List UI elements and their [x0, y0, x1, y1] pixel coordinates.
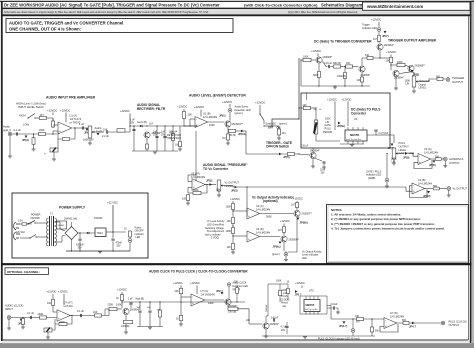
svg-text:+: + — [413, 190, 415, 194]
svg-text:100K: 100K — [193, 189, 199, 192]
svg-text:1N4002 (x4): 1N4002 (x4) — [64, 218, 77, 221]
svg-text:-: - — [196, 117, 197, 121]
svg-text:1K?: 1K? — [149, 122, 154, 125]
svg-text:100K(B): 100K(B) — [121, 326, 130, 328]
svg-text:1K: 1K — [124, 229, 127, 231]
svg-text:12VAC: 12VAC — [58, 224, 65, 227]
svg-text:10K: 10K — [246, 320, 251, 322]
svg-text:(ms) Trg Out Rst: (ms) Trg Out Rst — [346, 138, 361, 141]
svg-text:10K: 10K — [386, 60, 391, 63]
svg-text:-: - — [193, 179, 194, 183]
svg-text:High (B): High (B) — [136, 299, 145, 301]
svg-text:U? (A?): U? (A?) — [64, 300, 73, 304]
svg-text:1K: 1K — [176, 319, 179, 321]
svg-text:(AMB): (AMB) — [368, 177, 375, 180]
svg-text:Vc OUTPUT: Vc OUTPUT — [453, 187, 468, 191]
svg-text:HIGH (Line) / LOW (Inst.): HIGH (Line) / LOW (Inst.) — [16, 102, 46, 106]
svg-text:+12VDC: +12VDC — [177, 105, 187, 109]
svg-text:600K: 600K — [313, 74, 319, 77]
svg-text:10K: 10K — [227, 246, 232, 249]
svg-text:OUTPUT: OUTPUT — [449, 161, 460, 165]
svg-text:2N3906*: 2N3906* — [323, 56, 333, 59]
svg-text:Schematics are drawn based on: Schematics are drawn based on original d… — [4, 11, 209, 14]
svg-text:100K LIN: 100K LIN — [83, 139, 94, 142]
svg-text:TRIGGER: TRIGGER — [452, 76, 464, 80]
svg-text:51K: 51K — [365, 54, 370, 57]
svg-text:U? (C): U? (C) — [201, 289, 209, 293]
svg-text:Indicator LED: Indicator LED — [362, 27, 377, 30]
svg-text:+12VDC: +12VDC — [58, 290, 68, 294]
svg-text:-: - — [385, 318, 386, 322]
svg-text:(CLOCK): (CLOCK) — [280, 299, 290, 301]
svg-text:LED: LED — [136, 236, 141, 239]
svg-text:1 uF: 1 uF — [79, 122, 85, 126]
svg-text:LIN: LIN — [283, 293, 287, 295]
svg-text:(p)(c) 2013, Mike Zee, MZEnter: (p)(c) 2013, Mike Zee, MZEntertainment.c… — [288, 11, 358, 14]
svg-text:1K?: 1K? — [356, 321, 361, 323]
svg-text:U?5: U?5 — [309, 289, 314, 292]
svg-text:+: + — [58, 317, 60, 321]
svg-text:AUDIO (CLICK): AUDIO (CLICK) — [5, 303, 23, 307]
svg-text:NOTES:: NOTES: — [331, 208, 342, 212]
svg-text:Schematics Diagram.: Schematics Diagram. — [321, 2, 363, 7]
svg-text:+: + — [59, 130, 61, 134]
svg-text:35V: 35V — [78, 247, 83, 249]
svg-text:7812: 7812 — [97, 231, 104, 235]
svg-text:106I (B): 106I (B) — [228, 311, 236, 313]
svg-text:www.MZEntertainment.com: www.MZEntertainment.com — [366, 4, 423, 9]
svg-text:AUDIO LEVEL (EVENT) DETECTOR: AUDIO LEVEL (EVENT) DETECTOR — [189, 94, 246, 98]
svg-text:Audio: Audio — [3, 125, 10, 129]
svg-text:NE555: NE555 — [306, 303, 315, 307]
svg-text:0.01uF: 0.01uF — [301, 146, 309, 148]
svg-text:PULS (CLOCK): PULS (CLOCK) — [449, 319, 467, 323]
svg-text:U1: U1 — [354, 117, 358, 121]
svg-text:+12VDC: +12VDC — [222, 100, 232, 104]
svg-text:10K: 10K — [216, 189, 221, 192]
svg-text:U2 (D): U2 (D) — [256, 227, 264, 231]
svg-text:AUDIO CLICK TO PULS CLICK ( CL: AUDIO CLICK TO PULS CLICK ( CLICK-TO-CLO… — [149, 269, 248, 273]
svg-text:100K: 100K — [208, 302, 214, 305]
svg-text:2.2 uF: 2.2 uF — [102, 135, 110, 138]
svg-text:JP(5b): JP(5b) — [337, 124, 345, 128]
svg-text:25V: 25V — [153, 133, 158, 136]
svg-text:100K: 100K — [303, 56, 309, 59]
svg-text:0.01 uF: 0.01 uF — [324, 62, 333, 65]
svg-text:2. (*) 2N3904 or any general p: 2. (*) 2N3904 or any general purpose low… — [331, 217, 421, 221]
svg-text:680 (B): 680 (B) — [333, 62, 341, 65]
svg-text:+12VDC: +12VDC — [194, 105, 204, 109]
svg-text:1/4 TL074: 1/4 TL074 — [70, 117, 82, 121]
svg-text:JP(6c): JP(6c) — [273, 244, 281, 248]
svg-text:U1 (B): U1 (B) — [203, 111, 211, 115]
svg-text:1/4 LM324N: 1/4 LM324N — [201, 292, 215, 296]
svg-text:ONE CHANNEL OUT OF 4 is Shown:: ONE CHANNEL OUT OF 4 is Shown: — [9, 27, 81, 32]
svg-text:1/4 LM324N: 1/4 LM324N — [418, 182, 432, 186]
svg-text:+12VDC: +12VDC — [190, 281, 200, 285]
svg-text:PULS: PULS — [282, 296, 288, 298]
svg-text:ON/OFF: ON/OFF — [31, 217, 41, 220]
svg-text:PERIOD: PERIOD — [323, 131, 332, 134]
svg-text:LOW: LOW — [23, 123, 29, 127]
svg-text:10K: 10K — [103, 129, 108, 132]
svg-text:10K: 10K — [47, 302, 52, 305]
svg-text:(with Click-To-Clock Converter: (with Click-To-Clock Converter Option) — [244, 2, 318, 7]
svg-text:JP(10): JP(10) — [423, 195, 431, 198]
svg-text:JP(4.?): JP(4.?) — [339, 325, 348, 328]
svg-text:JP(B): JP(B) — [429, 164, 436, 167]
svg-text:U2 (C): U2 (C) — [256, 204, 264, 208]
svg-text:-: - — [248, 231, 249, 235]
svg-text:JP(6b): JP(6b) — [300, 220, 308, 224]
svg-text:+12VDC: +12VDC — [47, 109, 57, 113]
svg-text:DC (Gate) To TRIGGER CONVERTER: DC (Gate) To TRIGGER CONVERTER — [314, 40, 372, 44]
svg-text:U? (D): U? (D) — [390, 311, 398, 315]
svg-text:(optional): (optional) — [263, 199, 278, 203]
svg-text:-: - — [192, 294, 193, 298]
svg-text:1K?: 1K? — [373, 38, 378, 41]
svg-text:NE555: NE555 — [350, 133, 360, 137]
svg-text:LIN: LIN — [406, 83, 410, 86]
svg-text:1K?: 1K? — [40, 114, 45, 117]
svg-text:1/4 LM324N: 1/4 LM324N — [203, 115, 217, 119]
svg-text:Germ.(B): Germ.(B) — [137, 121, 147, 124]
svg-text:10K: 10K — [346, 62, 351, 65]
svg-text:22uF: 22uF — [320, 170, 326, 172]
svg-text:(green): (green) — [235, 112, 243, 115]
svg-text:OFF/ON Switch: OFF/ON Switch — [266, 145, 289, 149]
svg-text:1000uF: 1000uF — [76, 244, 84, 246]
svg-text:+: + — [196, 123, 198, 127]
svg-text:1uF: 1uF — [137, 307, 141, 309]
svg-text:0.1(?)7uF: 0.1(?)7uF — [379, 133, 390, 135]
svg-text:25V: 25V — [161, 133, 166, 136]
svg-text:470uF: 470uF — [116, 242, 123, 244]
svg-text:OPTIONAL CHANNEL:: OPTIONAL CHANNEL: — [7, 270, 40, 274]
svg-text:2N3906**: 2N3906** — [289, 238, 300, 241]
svg-text:1K: 1K — [287, 281, 290, 283]
svg-text:100K: 100K — [276, 281, 282, 283]
svg-text:JP(9): JP(9) — [403, 155, 409, 159]
svg-text:-: - — [419, 154, 420, 158]
svg-text:uA741C: uA741C — [64, 304, 74, 308]
svg-text:10K: 10K — [357, 79, 362, 82]
svg-text:+: + — [419, 160, 421, 164]
svg-text:Period: Period — [281, 302, 288, 305]
svg-text:220K: 220K — [108, 304, 114, 307]
svg-text:20K: 20K — [188, 114, 193, 117]
svg-text:+12VDC: +12VDC — [60, 109, 70, 113]
svg-text:0.1 uF: 0.1 uF — [14, 128, 22, 132]
svg-text:1/4 LM324N: 1/4 LM324N — [256, 230, 270, 234]
svg-text:1uF: 1uF — [147, 307, 151, 309]
svg-text:-: - — [248, 208, 249, 212]
svg-text:JP(2): JP(2) — [206, 178, 212, 182]
svg-text:U2 (A): U2 (A) — [424, 147, 432, 151]
svg-text:2N3904*: 2N3904* — [310, 150, 320, 153]
svg-text:1K1: 1K1 — [282, 132, 287, 135]
svg-text:1/4 LM324N: 1/4 LM324N — [390, 314, 404, 318]
svg-text:0.1 uF: 0.1 uF — [77, 310, 85, 313]
svg-text:+12VDC: +12VDC — [117, 288, 127, 292]
svg-text:LED: LED — [302, 257, 307, 260]
svg-text:JP(7): JP(7) — [382, 34, 389, 38]
svg-text:+: + — [248, 238, 250, 242]
svg-text:LEVEL: LEVEL — [419, 87, 427, 90]
svg-text:Dr ZEE WORKSHOP AUDIO (AC Sign: Dr ZEE WORKSHOP AUDIO (AC Signal) To GAT… — [4, 2, 220, 7]
svg-text:10K: 10K — [227, 220, 232, 223]
svg-text:U1 (A): U1 (A) — [70, 114, 78, 118]
svg-text:AUDIO INPUT PRE AMPLIFIER: AUDIO INPUT PRE AMPLIFIER — [46, 96, 96, 100]
svg-text:1K: 1K — [116, 297, 119, 300]
svg-text:1K?: 1K? — [278, 229, 283, 232]
svg-text:TRIGGER OUTPUT AMPLIFIER: TRIGGER OUTPUT AMPLIFIER — [388, 39, 437, 43]
svg-text:3900pF: 3900pF — [266, 304, 268, 312]
svg-text:12K: 12K — [303, 104, 308, 107]
svg-text:1N4002: 1N4002 — [94, 217, 103, 220]
svg-text:+12VDC: +12VDC — [280, 219, 290, 223]
svg-text:+12VDC: +12VDC — [230, 197, 240, 201]
svg-text:(green): (green) — [272, 253, 280, 256]
svg-text:10K: 10K — [157, 309, 161, 311]
svg-text:25V: 25V — [117, 245, 122, 247]
svg-text:+: + — [385, 324, 387, 328]
svg-text:16V: 16V — [281, 330, 286, 332]
svg-text:AUDIO TO GATE, TRIGGER and Vc: AUDIO TO GATE, TRIGGER and Vc CONVERTER … — [9, 21, 123, 26]
svg-text:+12VDC: +12VDC — [342, 97, 352, 101]
svg-text:INPUT: INPUT — [5, 307, 13, 311]
svg-text:LEVEL: LEVEL — [225, 184, 234, 188]
svg-text:THRESHOLD: THRESHOLD — [167, 137, 182, 140]
svg-text:1/4 LM324N: 1/4 LM324N — [424, 150, 438, 154]
svg-text:4. ?(-) Jumpers connections po: 4. ?(-) Jumpers connections points betwe… — [331, 226, 445, 230]
svg-text:100K: 100K — [226, 230, 232, 233]
svg-text:JP(3): JP(3) — [231, 188, 238, 192]
svg-text:2N3907**: 2N3907** — [302, 213, 313, 216]
svg-text:+12VDC: +12VDC — [371, 18, 381, 22]
svg-text:+12VDC: +12VDC — [295, 281, 305, 285]
svg-text:-: - — [59, 122, 60, 126]
svg-text:25V: 25V — [130, 121, 135, 124]
svg-text:Vc OUTPUT: Vc OUTPUT — [225, 180, 240, 184]
svg-text:10K: 10K — [234, 281, 239, 283]
svg-text:0.5A: 0.5A — [18, 219, 23, 222]
svg-text:+12VDC: +12VDC — [173, 281, 183, 285]
svg-text:2N3904*: 2N3904* — [384, 44, 394, 47]
svg-text:+12VDC: +12VDC — [120, 109, 130, 113]
svg-text:500K: 500K — [266, 216, 272, 219]
svg-text:1 uF: 1 uF — [128, 299, 133, 301]
svg-text:20K: 20K — [175, 290, 180, 293]
svg-text:100K(B): 100K(B) — [337, 75, 346, 78]
svg-text:POWER SUPPLY: POWER SUPPLY — [59, 206, 86, 210]
svg-text:1/4 LM324N: 1/4 LM324N — [256, 208, 270, 212]
svg-text:JP(1b): JP(1b) — [238, 132, 246, 136]
svg-text:+12 VDC: +12 VDC — [107, 200, 118, 204]
svg-text:HIGH: HIGH — [19, 114, 26, 118]
svg-text:120 VAC: 120 VAC — [16, 231, 25, 234]
svg-text:100K: 100K — [282, 290, 288, 292]
svg-text:100K: 100K — [39, 128, 45, 132]
svg-text:+12VDC: +12VDC — [255, 101, 265, 105]
svg-text:100K: 100K — [209, 124, 215, 127]
svg-text:JP4.?: JP4.? — [409, 325, 416, 329]
svg-text:0.1 uF: 0.1 uF — [27, 312, 35, 315]
svg-text:Gnd Trg Out Rst: Gnd Trg Out Rst — [305, 308, 319, 311]
svg-text:U2 (B): U2 (B) — [418, 178, 426, 182]
svg-text:PULS (CLOCK) Indicator LED (B): PULS (CLOCK) Indicator LED (B) (red) — [318, 338, 360, 341]
svg-text:10K: 10K — [182, 198, 187, 201]
svg-text:INPUT LEVEL Switch: INPUT LEVEL Switch — [18, 105, 44, 109]
svg-text:TO Vc Converter: TO Vc Converter — [203, 167, 229, 171]
svg-text:OUTPUT: OUTPUT — [452, 80, 463, 84]
svg-text:16V: 16V — [321, 173, 326, 175]
svg-text:JP(1): JP(1) — [219, 114, 226, 118]
svg-text:2N3904*: 2N3904* — [270, 323, 279, 326]
svg-text:RECTIFIER: FB,TR: RECTIFIER: FB,TR — [137, 107, 166, 111]
svg-text:2N3906**: 2N3906** — [415, 65, 426, 68]
svg-text:1. All resistors 1/4 Watts, un: 1. All resistors 1/4 Watts, unless noted… — [331, 213, 401, 217]
svg-text:+: + — [248, 215, 250, 219]
svg-text:5 VDC): 5 VDC) — [211, 237, 219, 240]
svg-text:+: + — [192, 302, 194, 306]
svg-text:1K?: 1K? — [291, 203, 296, 206]
svg-text:+12VDC: +12VDC — [327, 97, 337, 101]
svg-text:+12VDC: +12VDC — [311, 49, 321, 53]
svg-text:220K: 220K — [60, 322, 66, 324]
svg-text:Converter: Converter — [351, 111, 367, 115]
svg-text:LEVEL: LEVEL — [399, 149, 407, 152]
svg-text:+12VDC: +12VDC — [47, 290, 57, 294]
svg-text:-: - — [58, 310, 59, 314]
svg-text:0.01uF: 0.01uF — [331, 304, 339, 306]
svg-text:INPUT: INPUT — [3, 128, 11, 132]
svg-text:1K?: 1K? — [222, 137, 227, 140]
svg-text:(green): (green) — [279, 123, 287, 126]
svg-text:Switch(B): Switch(B) — [266, 123, 276, 126]
svg-text:2N3904**: 2N3904** — [232, 123, 243, 126]
svg-text:JP(A): JP(A) — [22, 138, 29, 142]
svg-text:100K: 100K — [397, 61, 403, 64]
svg-text:2N3904*: 2N3904* — [394, 77, 404, 80]
svg-text:-: - — [413, 183, 414, 187]
svg-text:+12VDC: +12VDC — [386, 50, 396, 54]
svg-text:Audio: Audio — [95, 126, 102, 130]
svg-text:100K: 100K — [116, 304, 122, 307]
svg-text:GATE/PULS: GATE/PULS — [449, 157, 464, 161]
svg-text:Adj: Adj — [283, 305, 287, 308]
svg-text:100K: 100K — [226, 206, 232, 209]
svg-text:OUTPUT: OUTPUT — [449, 323, 460, 327]
svg-text:+12VDC: +12VDC — [293, 196, 303, 200]
svg-text:3. (**) 2N3906 / 2N3907 or any: 3. (**) 2N3906 / 2N3907 or any general p… — [331, 222, 435, 226]
